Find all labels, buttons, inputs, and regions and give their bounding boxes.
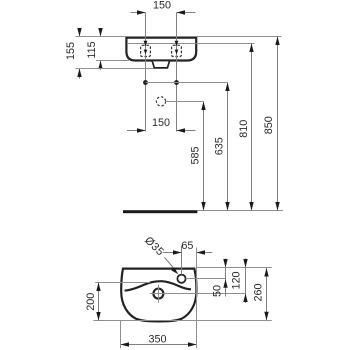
inner ledge line and 810 extension: [127, 43, 255, 45]
top extension line for 850: [196, 36, 282, 38]
svg-text:635: 635: [213, 137, 225, 155]
supply connection dot right: [174, 80, 179, 85]
back edge extension line: [197, 267, 272, 269]
plan view basin outline: [121, 269, 196, 322]
fixing hole left: [141, 45, 151, 56]
svg-text:115: 115: [86, 41, 98, 58]
svg-text:260: 260: [253, 283, 265, 301]
arrowheads right hole: [175, 41, 179, 47]
dimension 585: [203, 102, 205, 211]
svg-text:120: 120: [231, 271, 243, 289]
svg-text:810: 810: [238, 120, 250, 138]
floor bar: [123, 210, 197, 213]
waste outlet dashed circle: [156, 97, 165, 106]
dimension 200: [98, 283, 100, 321]
front view basin outline: [126, 38, 196, 61]
svg-text:350: 350: [148, 333, 166, 345]
dimension 260: [266, 268, 268, 320]
bowl back extension line: [95, 282, 150, 284]
extension line basin top left: [76, 36, 127, 38]
dimension 150 top: [131, 12, 146, 14]
front tangent extension line: [94, 320, 272, 322]
dimension 115: [100, 28, 102, 36]
drain trapezoid: [152, 61, 169, 68]
dimension 810: [251, 44, 253, 211]
extension line drain bottom: [76, 68, 154, 70]
svg-text:50: 50: [212, 285, 224, 297]
dimension 50: [225, 259, 227, 297]
supply connection dot left: [143, 80, 148, 85]
svg-text:65: 65: [181, 240, 193, 252]
centerline through left hole: [145, 13, 147, 132]
drain ring: [153, 289, 163, 299]
left extension line 350: [120, 321, 122, 348]
supply level line: [146, 82, 228, 84]
svg-text:585: 585: [190, 146, 202, 164]
dimension 350: [121, 344, 197, 346]
leader line O35: [165, 258, 175, 270]
tap center extension line: [186, 278, 226, 280]
svg-text:150: 150: [152, 117, 170, 129]
dimension 850: [277, 37, 279, 211]
svg-text:150: 150: [153, 0, 171, 12]
extension line basin underside: [96, 60, 129, 62]
right extension line 65 and 350: [196, 248, 198, 349]
svg-text:155: 155: [65, 42, 77, 60]
dimension 65: [163, 252, 182, 254]
svg-text:850: 850: [263, 116, 275, 134]
dimension 155: [79, 28, 81, 36]
svg-text:200: 200: [85, 293, 97, 311]
drain crosshair vertical: [158, 285, 160, 303]
svg-text:Ø35: Ø35: [142, 234, 166, 258]
floor extension line: [197, 210, 283, 212]
dimension 120: [245, 259, 247, 304]
tap hole circle: [177, 275, 185, 283]
centerline through right hole: [176, 13, 178, 132]
dimension 150 middle: [127, 130, 146, 132]
wave ledge line: [125, 281, 191, 290]
tap centerline extension: [181, 246, 183, 275]
drain crosshair horizontal and 120 extension: [150, 293, 246, 295]
fixing hole right: [172, 45, 182, 56]
dimension 635: [227, 83, 229, 211]
waste level line: [166, 101, 204, 103]
arrowheads left hole: [144, 41, 148, 47]
